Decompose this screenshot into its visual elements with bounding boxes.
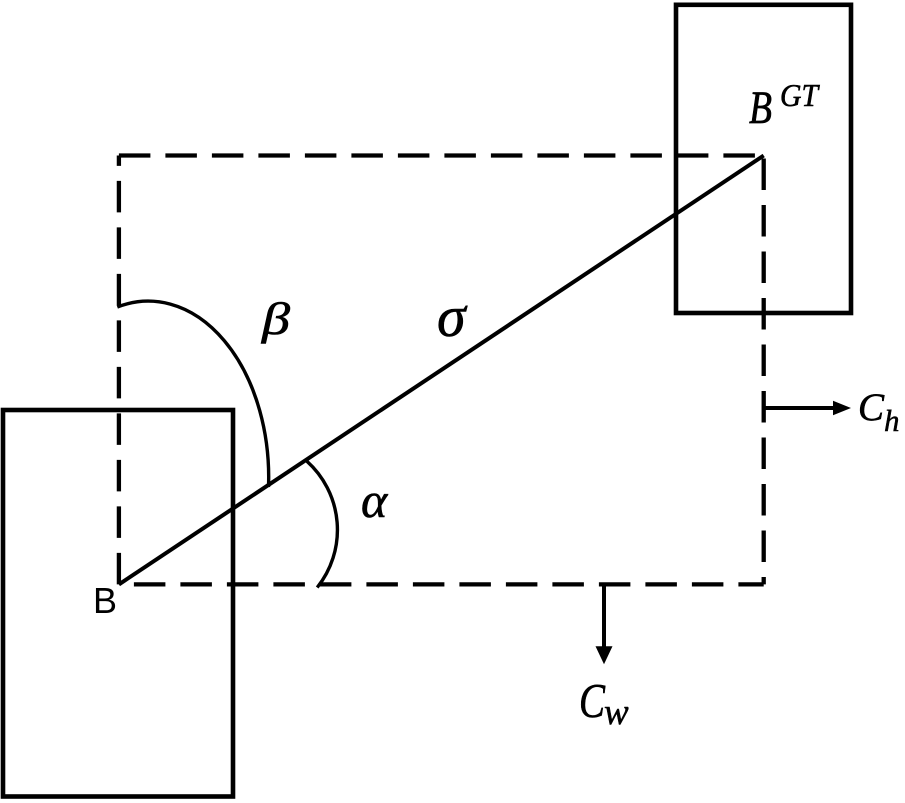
svg-text:h: h <box>884 403 900 438</box>
svg-text:w: w <box>604 692 629 733</box>
svg-text:σ: σ <box>437 284 468 349</box>
svg-text:C: C <box>858 386 885 429</box>
svg-text:B: B <box>749 82 772 134</box>
svg-text:GT: GT <box>780 77 820 113</box>
svg-text:C: C <box>579 673 606 728</box>
svg-text:β: β <box>261 294 291 344</box>
svg-text:α: α <box>361 472 389 528</box>
svg-text:B: B <box>93 580 117 621</box>
